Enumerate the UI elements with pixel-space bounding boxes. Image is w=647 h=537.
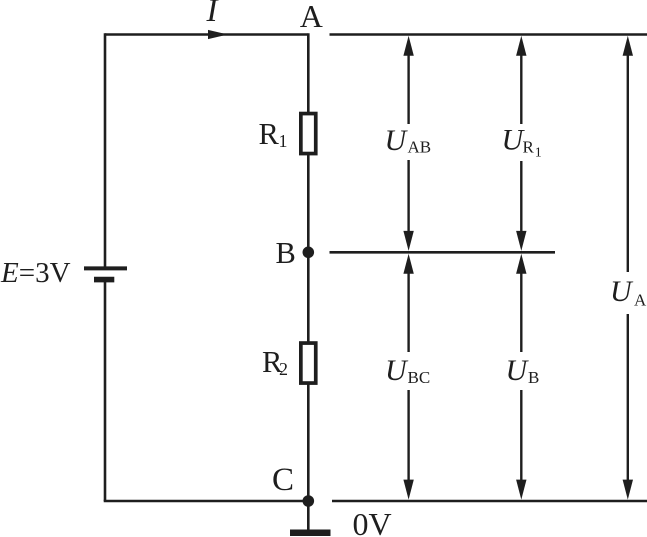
wire top-right segment bbox=[330, 33, 647, 36]
resistor R1 bbox=[301, 114, 316, 154]
svg-text:U: U bbox=[385, 354, 409, 387]
svg-text:C: C bbox=[272, 462, 294, 498]
wire left vertical lower bbox=[104, 280, 107, 501]
wire R1 to B bbox=[307, 154, 310, 252]
svg-text:U: U bbox=[610, 275, 634, 308]
resistor R2 bbox=[301, 343, 316, 383]
svg-text:I: I bbox=[206, 0, 220, 29]
node C bbox=[303, 495, 315, 507]
svg-text:B: B bbox=[528, 368, 539, 387]
voltage arrow U_A bbox=[623, 36, 633, 500]
voltage arrow U_BC bbox=[403, 254, 413, 500]
svg-text:1: 1 bbox=[279, 131, 288, 151]
wire node B horizontal line bbox=[330, 251, 556, 254]
svg-text:AB: AB bbox=[408, 138, 432, 157]
ground bbox=[290, 501, 331, 533]
current arrow I bbox=[208, 30, 228, 39]
svg-text:BC: BC bbox=[408, 368, 431, 387]
wire A to R1 bbox=[307, 33, 310, 113]
voltage arrow U_R1 bbox=[516, 36, 526, 251]
svg-text:U: U bbox=[506, 354, 530, 387]
svg-text:R: R bbox=[523, 138, 535, 157]
wire left vertical upper bbox=[104, 33, 107, 266]
svg-text:R: R bbox=[259, 117, 280, 151]
voltage arrow U_B bbox=[516, 254, 526, 500]
wire B to R2 bbox=[307, 252, 310, 342]
wire R2 to C bbox=[307, 384, 310, 501]
svg-text:B: B bbox=[276, 236, 296, 270]
svg-text:A: A bbox=[300, 0, 323, 34]
wire bottom-right segment bbox=[332, 500, 647, 503]
svg-text:E=3V: E=3V bbox=[0, 257, 71, 289]
svg-text:2: 2 bbox=[279, 359, 288, 379]
battery E bbox=[84, 268, 127, 279]
wire top-left segment bbox=[105, 33, 308, 36]
node B bbox=[303, 247, 315, 259]
voltage arrow U_AB bbox=[403, 36, 413, 251]
svg-text:0V: 0V bbox=[353, 506, 392, 537]
svg-text:1: 1 bbox=[535, 146, 542, 161]
svg-text:U: U bbox=[385, 124, 409, 157]
svg-text:A: A bbox=[634, 291, 647, 310]
wire bottom-left segment bbox=[104, 500, 308, 503]
